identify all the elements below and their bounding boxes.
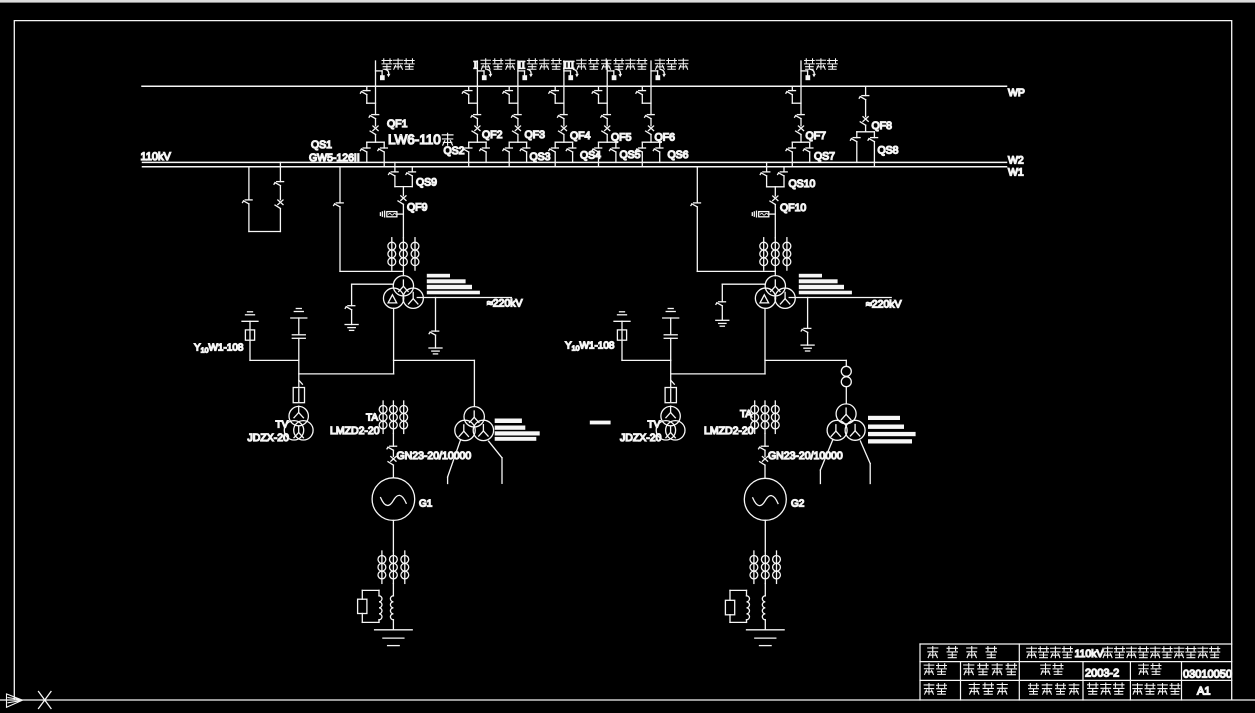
label QS10 [789,178,816,190]
label JDZX-20 T2 [620,432,662,444]
wire T1 HV [402,270,404,276]
svg-text:QS6: QS6 [668,149,689,161]
transformer bay T1: QS9 selector [389,162,416,186]
wire T1 LV [394,308,475,374]
svg-text:QS10: QS10 [789,178,816,190]
bus WP (bypass bus) [142,85,1007,87]
breaker QF9 [398,187,406,238]
label Y10W1-108 T1 [194,343,244,355]
surge arrester at QF10 [752,211,775,217]
aux T2 leads [820,440,870,484]
busbar selector disconnectors QS8 [850,132,877,167]
label QF5 [611,132,632,144]
svg-text:QF4: QF4 [570,130,591,142]
label QF6 [655,132,676,144]
disconnector GN23-20/10000 T1 [387,433,397,477]
label II Jiaoyu line [518,59,561,72]
label QS9 [416,177,437,189]
coupling capacitor branch T1 [291,309,307,361]
line bay 2 (I Jiaoyu line) [462,61,492,167]
label Jiaoji line [382,59,414,69]
breaker QF8 [860,100,868,132]
bus W1 [143,166,1007,168]
wire G1 neutral [392,520,394,551]
busbar selector disconnectors QS2 [462,142,489,167]
title: Jiaozuo power plant 110kV primary system electrical main wiring diagram [1027,647,1220,660]
disconnector above breaker QF6 [645,115,655,126]
current transformers T1 HV [388,238,419,270]
wire 220kV side T2 [789,297,891,299]
auxiliary transformer T1 [455,407,494,441]
bypass breaker bay QF8 [850,86,877,167]
busbar selector disconnectors [360,142,387,167]
bypass disconnector [462,86,477,103]
svg-text:QS2: QS2 [444,145,465,157]
breaker QF5 [602,126,610,142]
label QF10 [780,202,806,214]
svg-text:QS5: QS5 [620,149,641,161]
line termination arrester [477,69,492,80]
svg-text:QF1: QF1 [387,118,408,130]
bypass disconnector (W1 to T2) [691,167,775,272]
current transformers G1 neutral [378,551,409,583]
line termination arrester [801,69,816,80]
wire TV junction T1 [299,373,394,375]
wire TV junction T2 [671,373,765,375]
svg-text:QF10: QF10 [780,202,806,214]
svg-text:G2: G2 [791,498,805,509]
bypass disconnector [592,86,607,103]
wire 220kV side [417,297,511,299]
disconnector above breaker QF5 [601,115,611,126]
generator G1 [372,478,415,521]
line bay 7 (Jiaonan line) [786,61,816,167]
svg-text:W1: W1 [1008,166,1024,178]
label QF1 [387,118,408,130]
label QF8 [872,120,893,132]
svg-text:QS4: QS4 [580,150,601,162]
svg-text:2003-2: 2003-2 [1085,668,1119,680]
bypass disconnector [503,86,518,103]
bypass disconnector [549,86,564,103]
title block row1: sheet name [928,647,997,658]
coupler disconnector left [243,167,253,232]
line bay 4 (III Jiaoyu line) [549,61,579,167]
wire to aux transformer T1 [473,360,475,406]
label 110kV [141,151,172,163]
wire to aux transformer T2 [845,360,847,366]
current transformers T2 HV [760,238,791,270]
label JDZX-20 T1 [248,432,290,444]
label LW6-110 type [388,132,453,147]
label Jiaofeng line [614,59,647,69]
breaker QF6 [646,126,654,142]
stray dash [590,421,611,425]
svg-text:GN23-20/10000: GN23-20/10000 [397,450,472,462]
bypass disconnector [360,86,375,103]
label QF7 [806,130,827,142]
svg-text:QF9: QF9 [407,202,428,214]
label QF4 [570,130,591,142]
top window band [0,0,1255,3]
arrester Y10W1-108 branch T1 [242,312,299,361]
line termination arrester [518,69,533,80]
bypass disconnector [636,86,651,103]
surge arrester at QF9 [380,211,403,217]
label W1 [1008,166,1024,178]
label QF9 [407,202,428,214]
label G2 [791,498,805,509]
svg-text:QF2: QF2 [482,129,503,141]
svg-text:GW5-126II: GW5-126II [309,152,360,164]
label W2 [1008,155,1024,167]
svg-text:LMZD2-20: LMZD2-20 [330,425,380,437]
row2: department / class / student id [924,664,946,675]
auxiliary transformer T2 [827,404,865,440]
ground G2 neutral [747,620,785,646]
label GW5-126 II [309,152,360,164]
breaker QF2 [472,126,480,142]
svg-text:110kV: 110kV [141,151,172,163]
svg-text:TV: TV [276,420,289,431]
breaker QF10 [770,187,778,238]
label WP [1008,87,1025,99]
svg-text:QF5: QF5 [611,132,632,144]
label I Jiaoyu line [474,59,515,72]
reactor coils T2 aux feed [841,366,851,404]
wire feeder [800,61,802,115]
disconnector above breaker QF3 [512,115,522,126]
line termination arrester [651,69,666,80]
label GN23-20/10000 T2 [768,450,843,462]
disconnector GN23-20/10000 T2 [759,433,769,478]
G2 grounding transformer with resistor [725,583,765,622]
busbar selector disconnectors QS3 [503,142,530,167]
disconnector above breaker QF2 [471,115,481,126]
wire feeder [517,61,519,115]
wire G2 neutral [764,520,766,551]
bus W2 [143,161,1007,163]
bypass disconnector [786,86,801,103]
transformer bay T2: QS10 selector [760,162,787,186]
line termination arrester [564,69,579,80]
svg-text:II: II [518,59,526,71]
svg-text:A1: A1 [1197,686,1210,698]
wire T2 LV [765,308,846,374]
svg-text:I: I [474,59,478,71]
wire feeder [375,61,377,115]
label QS6 [668,149,689,161]
label ~220kV T2 [866,299,902,311]
wire feeder [476,61,478,115]
generator G2 [744,478,786,520]
ground G1 neutral [375,620,413,646]
line termination arrester [376,69,391,80]
disconnector [859,86,869,99]
svg-text:03010050: 03010050 [1183,669,1232,681]
busbar selector disconnectors QS4 [549,142,576,167]
svg-text:QS9: QS9 [416,177,437,189]
svg-text:G1: G1 [419,498,433,509]
label Jiaonan line [805,59,838,69]
svg-text:≈220kV: ≈220kV [866,299,902,311]
wire coupler bottom [249,231,281,233]
wire T2 HV [774,270,776,276]
breaker QF1 [370,126,378,142]
wire feeder [606,61,608,115]
main transformer T1 [383,276,423,309]
G1 grounding transformer with resistor [358,583,394,622]
breaker QF3 [513,126,521,142]
T2 220kV earthing switch [801,298,814,352]
bars callout T2 220kV [799,274,852,295]
svg-text:QS8: QS8 [878,144,899,156]
svg-text:LMZD2-20: LMZD2-20 [704,425,754,437]
svg-text:110kV: 110kV [1075,648,1104,660]
line bay 3 (II Jiaoyu line) [503,61,533,167]
label QF3 [525,129,546,141]
coupler disconnector right [274,162,284,199]
label Y10W1-108 T2 [565,341,615,353]
svg-text:GN23-20/10000: GN23-20/10000 [768,450,843,462]
label QS8 [878,144,899,156]
svg-text:LW6-110: LW6-110 [388,132,441,147]
plot stamp triangle [7,694,23,707]
svg-text:WP: WP [1008,87,1025,99]
label ~220kV T1 [487,298,523,310]
label Jiaoyuan line [655,59,688,69]
label QS5 [620,149,641,161]
svg-text:≈220kV: ≈220kV [487,298,523,310]
svg-text:QS3: QS3 [530,151,551,163]
label TV T1 [276,420,289,431]
bus coupler bay [243,162,284,231]
break mark X [39,692,52,709]
label QS7 [814,151,835,163]
wire feeder [563,61,565,115]
breaker QF4 [559,126,567,142]
svg-text:TV: TV [648,420,661,431]
row3: name / advisor / sheet size [924,684,946,695]
line bay 5 (Jiaofeng line) [592,61,622,167]
bars callout aux T1 [495,419,540,441]
coupler breaker [275,200,283,232]
svg-text:QS1: QS1 [311,139,332,151]
label TV T2 [648,420,661,431]
busbar selector disconnectors QS6 [636,142,663,167]
T1 220kV earthing switch [429,298,442,354]
breaker QF7 [796,126,804,142]
voltage transformer TV T2 [656,360,685,440]
svg-text:QF6: QF6 [655,132,676,144]
label QS2 [444,145,465,157]
current transformer TA T1 [379,401,407,433]
T1 neutral grounding [345,284,393,330]
line termination arrester [607,69,622,80]
main transformer T2 [755,276,795,309]
svg-text:W2: W2 [1008,155,1024,167]
voltage transformer TV T1 [284,360,313,440]
label TA T1 [366,413,378,424]
current transformers G2 neutral [750,551,780,583]
svg-text:QS7: QS7 [814,151,835,163]
disconnector above breaker QF7 [795,115,805,126]
busbar selector disconnectors QS7 [786,142,813,167]
label TA T2 [740,409,752,420]
svg-text:QF8: QF8 [872,120,893,132]
label III Jiaoyu line [563,59,611,72]
label G1 [419,498,433,509]
line bay 6 (Jiaoyuan line) [636,61,666,167]
label QS1 [311,139,332,151]
disconnector above breaker QF1 [369,115,379,126]
svg-text:III: III [563,59,574,71]
arrester Y10W1-108 branch T2 [614,312,671,361]
label QS3 [530,151,551,163]
wire feeder [650,61,652,115]
coupling capacitor branch T2 [663,309,679,361]
svg-text:QF3: QF3 [525,129,546,141]
svg-text:JDZX-20: JDZX-20 [620,432,662,444]
title block [920,644,1232,700]
T2 neutral grounding [716,284,766,326]
aux T1 leads [448,440,502,484]
disconnector above breaker QF4 [558,115,568,126]
label QS4 [580,150,601,162]
current transformer TA T2 [751,401,779,433]
label QF2 [482,129,503,141]
svg-text:TA: TA [740,409,752,420]
busbar selector disconnectors QS5 [592,142,619,167]
svg-text:TA: TA [366,413,378,424]
bars callout T1 220kV [427,274,480,295]
bypass disconnector QS1 (W1 to T1) [334,167,404,272]
svg-text:QF7: QF7 [806,130,827,142]
label GN23-20/10000 T1 [397,450,472,462]
svg-text:JDZX-20: JDZX-20 [248,432,290,444]
label LMZD2-20 T2 [704,425,754,437]
bars callout aux T2 [868,416,916,444]
label LMZD2-20 T1 [330,425,380,437]
line bay 1 (Jiaoji line) [360,61,390,167]
